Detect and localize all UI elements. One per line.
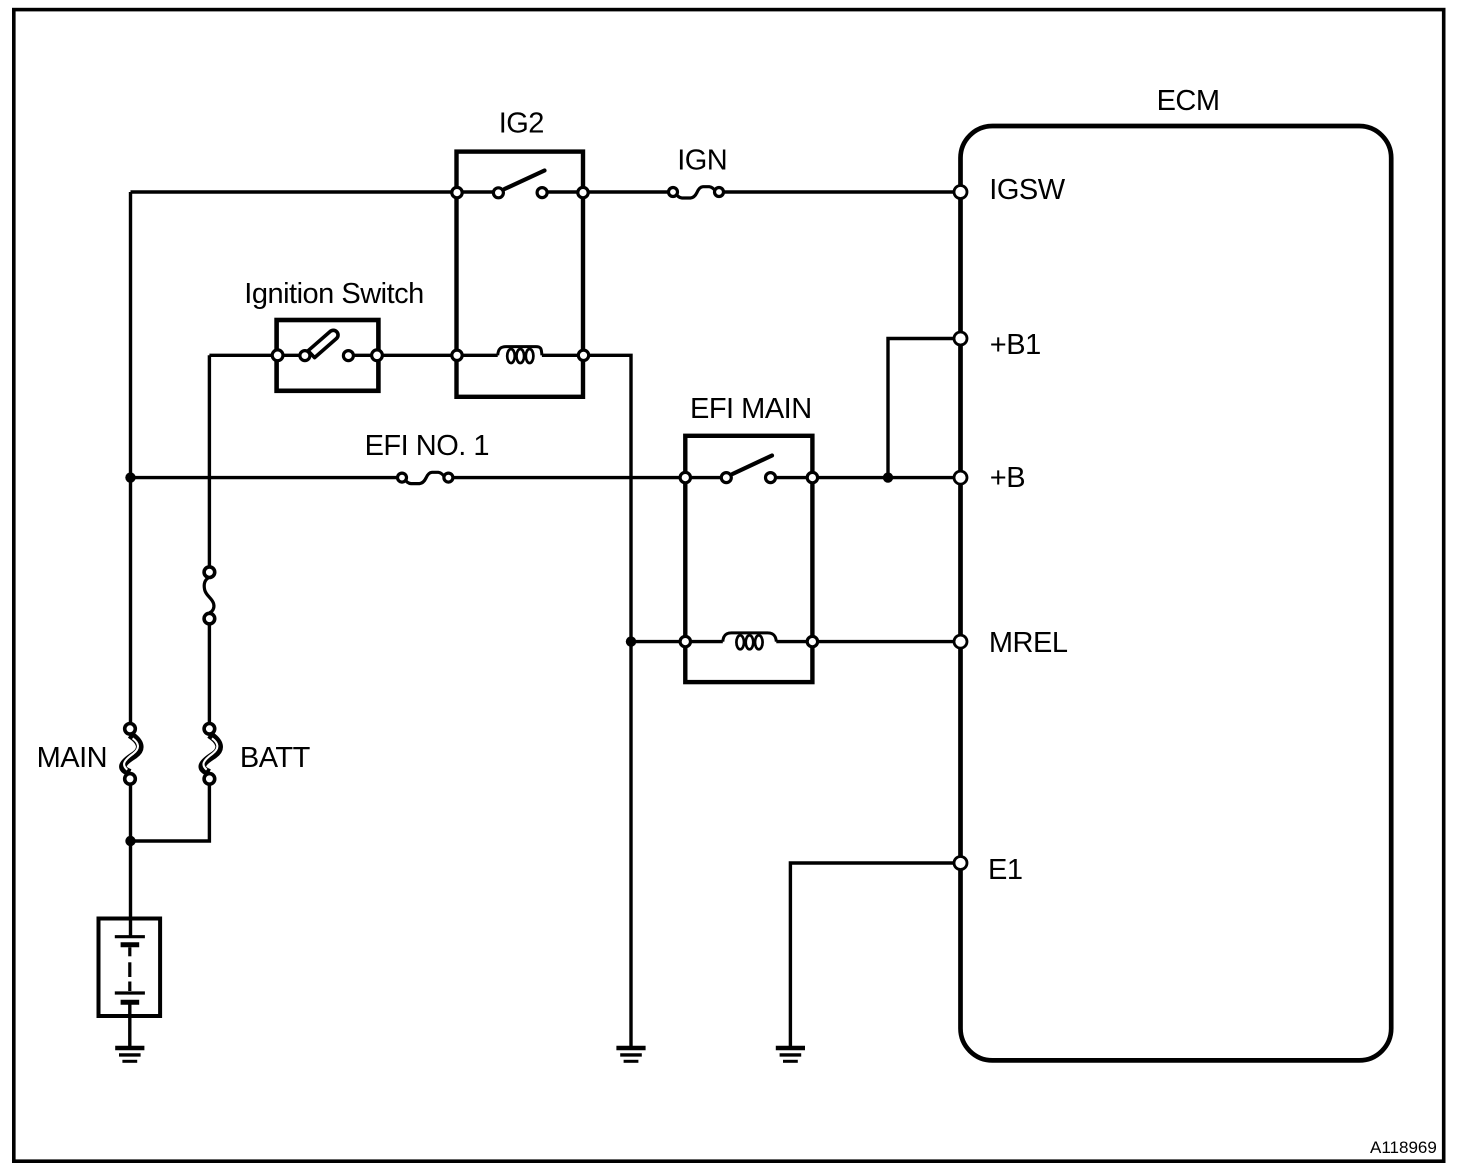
svg-text:EFI MAIN: EFI MAIN <box>690 393 812 425</box>
svg-text:Ignition Switch: Ignition Switch <box>244 278 423 310</box>
svg-text:+B: +B <box>990 462 1025 494</box>
svg-text:EFI NO. 1: EFI NO. 1 <box>365 430 489 462</box>
svg-text:A118969: A118969 <box>1370 1138 1437 1157</box>
svg-text:BATT: BATT <box>240 742 311 774</box>
svg-text:IGN: IGN <box>677 145 727 177</box>
svg-text:IG2: IG2 <box>499 108 544 140</box>
svg-text:IGSW: IGSW <box>989 174 1065 206</box>
svg-text:ECM: ECM <box>1157 85 1220 117</box>
svg-text:MREL: MREL <box>989 627 1068 659</box>
svg-text:E1: E1 <box>988 854 1022 886</box>
svg-text:MAIN: MAIN <box>37 742 108 774</box>
svg-text:+B1: +B1 <box>990 329 1041 361</box>
